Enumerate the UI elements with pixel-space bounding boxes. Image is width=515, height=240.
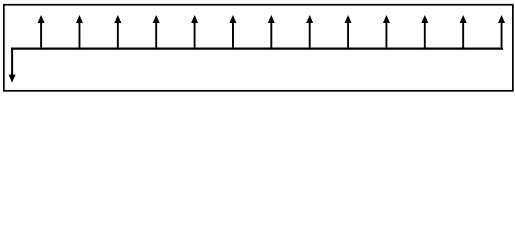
up arrow A12 stem — [462, 22, 464, 49]
up arrow A13 head — [498, 15, 505, 23]
up arrow A2 head — [76, 15, 83, 23]
down arrow head — [9, 75, 16, 83]
up arrow A1 head — [38, 15, 45, 23]
up arrow A4 stem — [155, 22, 157, 49]
up arrow A12 head — [460, 15, 467, 23]
up arrow A8 stem — [309, 22, 311, 49]
up arrow A13 stem — [501, 22, 503, 49]
up arrow A11 head — [421, 15, 428, 23]
up arrow A9 head — [345, 15, 352, 23]
up arrow A7 head — [268, 15, 275, 23]
up arrow A10 head — [383, 15, 390, 23]
up arrow A3 stem — [117, 22, 119, 49]
up arrow A8 head — [306, 15, 313, 23]
up arrow A5 head — [191, 15, 198, 23]
up arrow A3 head — [114, 15, 121, 23]
up arrow A6 head — [229, 15, 236, 23]
up arrow A6 stem — [232, 22, 234, 49]
wire: left vertical drop — [11, 48, 13, 76]
up arrow A4 head — [153, 15, 160, 23]
up arrow A1 stem — [40, 22, 42, 49]
up arrow A2 stem — [78, 22, 80, 49]
up arrow A10 stem — [385, 22, 387, 49]
up arrow A9 stem — [347, 22, 349, 49]
up arrow A5 stem — [194, 22, 196, 49]
up arrow A11 stem — [424, 22, 426, 49]
up arrow A7 stem — [270, 22, 272, 49]
wire: horizontal bus — [11, 48, 503, 50]
